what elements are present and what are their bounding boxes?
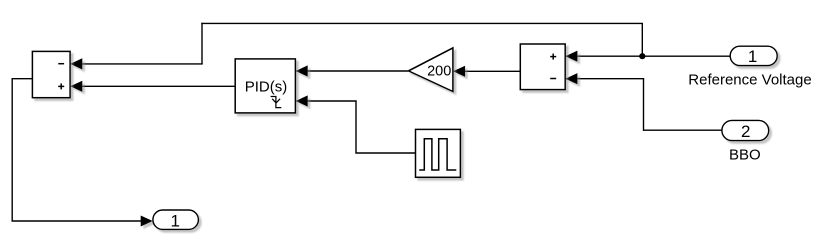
- wire feedback into minus input of Sum1: [70, 58, 202, 69]
- inport 1 Reference Voltage oval: [730, 46, 777, 66]
- outport 1 oval: [153, 210, 199, 230]
- svg-text:1: 1: [748, 47, 757, 66]
- pulse generator block: [416, 129, 461, 177]
- wire from Reference Voltage port to plus input of Sum2: [565, 51, 730, 62]
- label BBO: [729, 147, 761, 164]
- label Reference Voltage: [688, 72, 811, 89]
- wire PID output to plus input of Sum1: [70, 81, 235, 92]
- svg-text:1: 1: [170, 211, 179, 230]
- wire BBO into minus input of Sum2: [565, 73, 644, 84]
- wire Pulse Generator output to PID second input: [296, 95, 416, 153]
- svg-text:PID(s): PID(s): [245, 78, 288, 95]
- svg-text:Reference Voltage: Reference Voltage: [688, 72, 811, 89]
- svg-text:2: 2: [741, 122, 750, 141]
- wire top feedback horizontal run: [201, 22, 643, 24]
- wire feedback vertical drop at left: [201, 23, 203, 64]
- wire Sum1 output down and right to Out1 port: [12, 79, 153, 227]
- wire Sum2 output to Gain input: [453, 66, 520, 77]
- wire from BBO port horizontal: [644, 129, 722, 131]
- sum block Sum2 (mirrored, plus over minus): [520, 44, 565, 90]
- sum block Sum1 (mirrored, minus over plus): [32, 51, 70, 97]
- node junction on Reference Voltage wire: [639, 53, 645, 59]
- wire BBO vertical rise: [643, 79, 645, 131]
- svg-text:200: 200: [427, 63, 451, 79]
- wire Gain output to PID first input: [296, 65, 409, 76]
- gain block value 200 (mirrored triangle): [409, 48, 453, 92]
- svg-text:BBO: BBO: [729, 147, 761, 164]
- wire vertical branch from junction up to top feedback wire: [641, 23, 643, 56]
- PID controller block: [235, 59, 295, 113]
- inport 2 BBO oval: [722, 120, 769, 141]
